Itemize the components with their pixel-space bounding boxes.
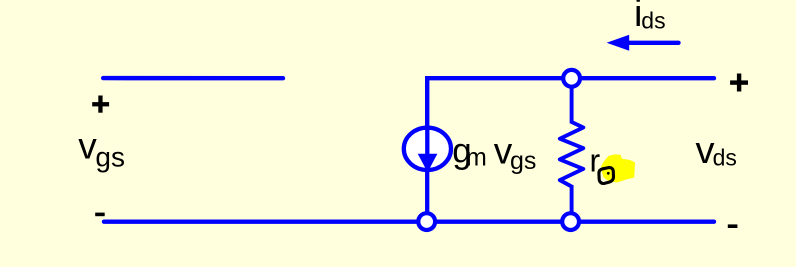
svg-text:v: v (78, 126, 97, 167)
wire: gate input stub (top-left) (103, 76, 283, 80)
resistor ro zigzag (560, 122, 584, 187)
minus sign (bottom left, gate -) (95, 213, 105, 217)
wire: resistor to bottom rail (570, 185, 574, 214)
wire: top rail with corner down to current source (427, 78, 714, 129)
highlighter mark over subscript o (601, 154, 635, 182)
svg-text:gs: gs (510, 147, 536, 175)
current source U1 circle (404, 128, 451, 170)
svg-text:ds: ds (641, 8, 665, 34)
plus sign (top left, gate +) (92, 102, 109, 106)
wire: current source to bottom rail (425, 169, 429, 214)
node: bottom source node under current source (open circle) (418, 213, 435, 230)
node: top drain node (open circle) (563, 70, 580, 87)
plus sign (top right, drain +) (730, 80, 748, 84)
highlighter fill inside o (603, 170, 613, 179)
node: bottom node under resistor (open circle) (562, 213, 579, 230)
wire: top node to resistor (570, 86, 574, 124)
current direction arrow i_ds (pointing left) (628, 41, 679, 45)
svg-text:ds: ds (713, 145, 737, 171)
current source arrowhead (418, 154, 438, 172)
minus sign (bottom right, drain -) (728, 224, 738, 228)
svg-text:gs: gs (95, 142, 125, 173)
svg-text:m: m (466, 144, 487, 172)
current source arrow stem (425, 126, 429, 156)
hand-drawn subscript o of r_o (599, 168, 614, 184)
wire: bottom rail (104, 219, 714, 223)
